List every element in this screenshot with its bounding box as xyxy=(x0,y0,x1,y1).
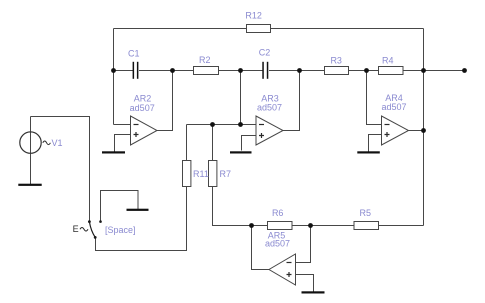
junction AR4 output on right vertical xyxy=(421,128,426,133)
wire AR5 output to bottom rail xyxy=(252,226,270,270)
wire R2 to C2 left plate xyxy=(219,70,263,72)
switch E sine mark xyxy=(80,228,88,232)
svg-text:R5: R5 xyxy=(360,208,372,218)
wire switch right throw to ground xyxy=(101,191,139,223)
op-amp AR4 plus pin mark xyxy=(385,132,390,137)
wire R11 top stem xyxy=(186,125,188,161)
wire top rail left segment xyxy=(114,28,247,30)
wire AR3 plus input to ground xyxy=(242,136,257,151)
wire bottom rail R6 to R5 xyxy=(292,225,354,227)
svg-text:R6: R6 xyxy=(272,208,284,218)
junction R4 right on main rail xyxy=(421,68,426,73)
wire R7 bottom to bottom rail at R6 xyxy=(213,187,268,226)
wire left vertical node (AR2 inverting node) xyxy=(113,29,115,125)
wire AR4 minus input from main rail xyxy=(367,71,382,125)
svg-text:ad507: ad507 xyxy=(381,102,406,112)
resistor R3 body xyxy=(325,67,349,75)
junction AR5 minus on bottom rail xyxy=(308,223,313,228)
svg-text:R4: R4 xyxy=(382,55,394,65)
op-amp AR3 minus pin mark xyxy=(259,124,264,126)
resistor R7 body xyxy=(209,161,217,187)
junction AR5 output on bottom rail xyxy=(249,223,254,228)
svg-text:R3: R3 xyxy=(330,55,342,65)
op-amp AR2 minus pin mark xyxy=(134,124,139,126)
wire R4 to output terminal xyxy=(403,70,465,72)
op-amp AR2 triangle xyxy=(131,116,158,145)
op-amp AR5 minus pin mark xyxy=(287,262,292,264)
ground at AR5 plus input xyxy=(302,291,325,293)
resistor R11 body xyxy=(183,161,191,187)
svg-text:R2: R2 xyxy=(199,55,211,65)
switch S1 right throw contact dot xyxy=(99,220,102,223)
svg-text:ad507: ad507 xyxy=(257,102,282,112)
capacitor C2 plates xyxy=(262,62,264,79)
resistor R6 body xyxy=(268,222,293,230)
junction R2-C2 on main rail xyxy=(238,68,243,73)
op-amp AR4 triangle xyxy=(382,116,409,145)
wire AR5 minus input to bottom rail xyxy=(296,226,311,263)
ground at AR2 plus input xyxy=(102,151,125,153)
op-amp AR5 triangle (points left) xyxy=(269,254,296,285)
capacitor C1 plates xyxy=(133,62,135,79)
wire AR5 plus input to ground xyxy=(296,275,314,292)
wire V1 top to switch left throw xyxy=(31,117,90,222)
svg-text:C1: C1 xyxy=(128,49,140,59)
op-amp AR5 plus pin mark xyxy=(287,272,292,277)
wire R11 bottom to switch common xyxy=(96,187,187,251)
wire AR4 output xyxy=(409,130,424,132)
junction R7 top on AR3 minus wire xyxy=(210,122,215,127)
wire AR3 minus input rail xyxy=(187,124,257,126)
svg-text:C2: C2 xyxy=(259,48,271,58)
wire R3 to R4 xyxy=(349,70,379,72)
svg-text:ad507: ad507 xyxy=(130,103,155,113)
wire V1 vertical through source xyxy=(30,117,32,185)
source V1 sine mark xyxy=(43,141,51,145)
svg-text:[Space]: [Space] xyxy=(105,225,136,235)
ground at AR4 plus input xyxy=(357,151,380,153)
junction C1 left on main rail xyxy=(111,68,116,73)
wire AR4 plus input to ground xyxy=(369,135,382,152)
wire R7 top stem xyxy=(212,125,214,161)
junction AR2 output on main rail xyxy=(170,68,175,73)
resistor R12 body xyxy=(247,25,271,33)
wire main rail to C1 left plate xyxy=(114,70,134,72)
wire right vertical (top rail to bottom rail) xyxy=(423,29,425,226)
wire top rail right segment xyxy=(271,28,424,30)
resistor R4 body xyxy=(379,67,404,75)
op-amp AR4 minus pin mark xyxy=(385,124,390,126)
wire bottom rail R5 to right vertical xyxy=(379,225,424,227)
svg-text:R11: R11 xyxy=(193,169,209,179)
switch S1 pivot dot top xyxy=(88,220,91,223)
wire R2/C2 node down to AR3 minus wire xyxy=(240,71,242,125)
op-amp AR2 plus pin mark xyxy=(134,132,139,137)
ground at V1 xyxy=(18,184,41,186)
ground at AR3 plus input xyxy=(230,151,252,153)
ground at switch right throw xyxy=(127,209,149,211)
wire AR2 output to main rail xyxy=(157,71,173,131)
op-amp AR3 triangle xyxy=(256,116,283,145)
svg-text:E: E xyxy=(73,224,79,234)
svg-text:V1: V1 xyxy=(52,138,63,148)
switch S1 arm xyxy=(89,222,95,238)
svg-text:R12: R12 xyxy=(245,10,262,20)
wire C1 right plate to R2 xyxy=(139,70,194,72)
source V1 circle xyxy=(20,132,41,153)
svg-text:ad507: ad507 xyxy=(265,239,290,249)
junction R3-R4 on main rail xyxy=(364,68,369,73)
switch S1 pivot dot bottom xyxy=(94,236,97,239)
node output terminal xyxy=(462,68,467,73)
resistor R2 body xyxy=(194,67,219,75)
wire C2 right plate to R3 xyxy=(269,70,325,72)
wire AR3 output to main rail xyxy=(283,71,300,131)
junction C2-R3 on main rail xyxy=(297,68,302,73)
wire AR2 minus input stub xyxy=(114,124,131,126)
wire AR2 plus input to ground xyxy=(115,135,131,152)
junction node vertical on AR3 minus wire xyxy=(238,122,243,127)
resistor R5 body xyxy=(354,222,379,230)
svg-text:R7: R7 xyxy=(220,169,232,179)
op-amp AR3 plus pin mark xyxy=(259,133,264,138)
